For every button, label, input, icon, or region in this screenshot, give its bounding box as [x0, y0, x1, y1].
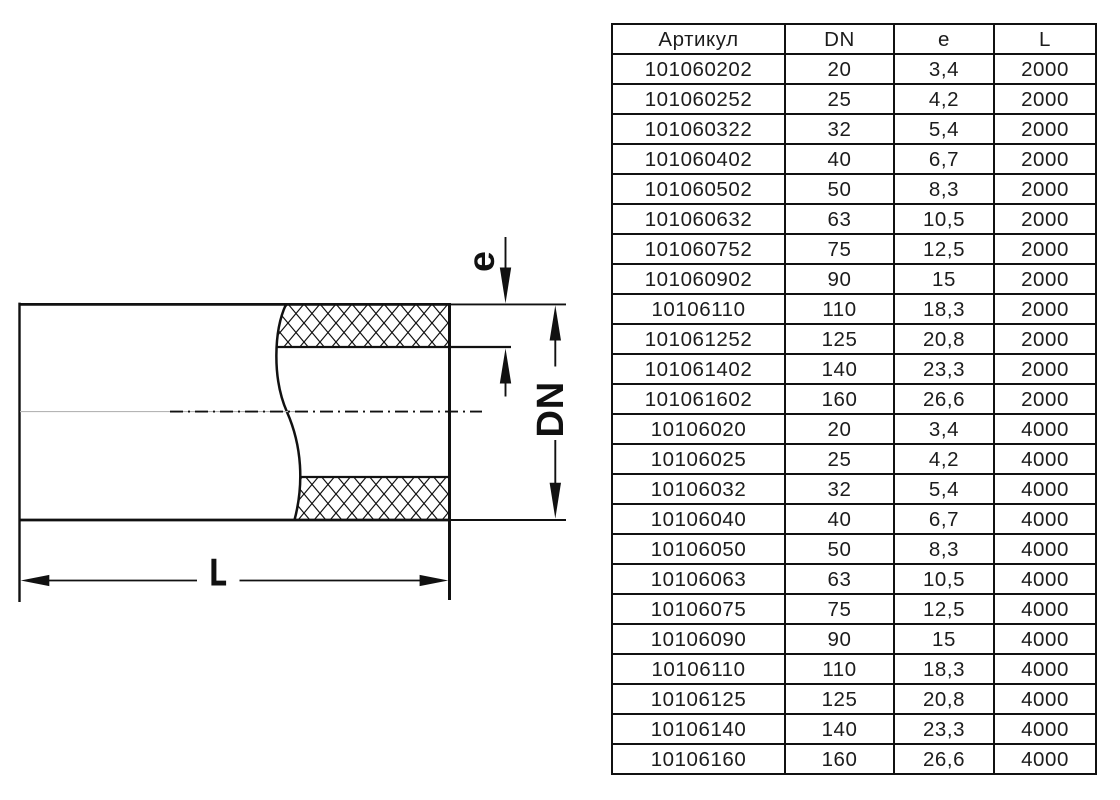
hatched pipe wall (top)	[277, 304, 451, 347]
DN dimension line (upper)	[554, 340, 556, 367]
L dimension line (right segment)	[240, 580, 421, 582]
pipe left end edge / L extension line	[18, 303, 20, 602]
centerline dash-dot	[170, 411, 482, 413]
e dimension line (lower)	[505, 382, 507, 397]
DN dimension arrow (down)	[550, 483, 561, 519]
hatched pipe wall (bottom)	[295, 477, 451, 520]
L dimension line (left segment)	[48, 580, 197, 582]
break wave line	[276, 304, 300, 520]
svg-text:DN: DN	[530, 381, 572, 438]
e dimension line (upper)	[505, 237, 507, 272]
pipe right end edge / L extension line	[448, 303, 451, 600]
e dimension arrow (up)	[500, 348, 511, 383]
DN dimension arrow (up)	[550, 305, 561, 340]
DN dimension line (lower)	[554, 440, 556, 483]
pipe technical drawing	[0, 0, 610, 800]
pipe top edge	[19, 303, 450, 306]
L dimension arrow (right)	[420, 575, 449, 586]
label L	[211, 559, 226, 586]
DN extension line (top)	[450, 303, 566, 305]
DN extension line (bottom)	[450, 519, 566, 521]
pipe inner wall line (bottom)	[300, 476, 450, 478]
specification table	[611, 23, 1097, 775]
L dimension arrow (left)	[21, 575, 50, 586]
pipe bottom edge	[19, 519, 450, 522]
pipe inner wall line (top) with e extension	[277, 346, 512, 348]
e dimension arrow (down)	[500, 268, 511, 304]
centerline (faint left part)	[20, 411, 295, 413]
svg-text:e: e	[460, 251, 502, 272]
